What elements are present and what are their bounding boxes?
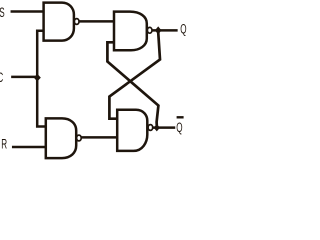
node Q	[155, 26, 162, 34]
wire Q-bar feedback to U2 input	[107, 42, 158, 126]
wire U3 output to U4	[82, 136, 116, 139]
wire Q-bar output	[154, 126, 174, 129]
NAND gate U4 bottom-right	[117, 110, 147, 151]
svg-text:Q: Q	[176, 121, 182, 136]
wire S input	[12, 10, 43, 13]
node C junction	[34, 74, 41, 82]
wire C input	[12, 76, 37, 79]
overbar of Q-bar	[177, 116, 184, 118]
bubble U3	[77, 135, 82, 141]
bubble U2	[147, 27, 152, 33]
svg-text:Q: Q	[180, 22, 186, 37]
node Q-bar	[154, 124, 160, 131]
NAND gate U2 top-right	[114, 12, 147, 51]
wire Q feedback to U4 input	[109, 32, 160, 119]
wire Q output	[153, 29, 177, 32]
NAND gate U3 bottom-left	[46, 118, 76, 158]
svg-text:R: R	[1, 137, 7, 152]
wire R input	[13, 146, 45, 149]
NAND gate U1 top-left	[44, 3, 74, 41]
wire C branch up to U1	[37, 31, 43, 77]
bubble U4	[148, 125, 153, 131]
wire U1 output to U2	[80, 20, 113, 23]
bubble U1	[74, 19, 79, 25]
wire C branch down to U3	[37, 77, 45, 127]
svg-text:C: C	[0, 71, 3, 86]
svg-text:S: S	[0, 6, 5, 21]
